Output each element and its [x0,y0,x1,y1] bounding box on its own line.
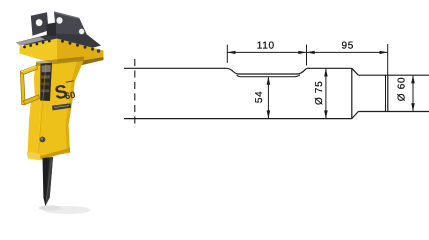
logo S60 [66,81,74,83]
svg-text:110: 110 [257,41,275,52]
flange bolts right row [61,40,64,43]
95 right [380,51,388,54]
D75 top / bottom [324,68,328,76]
web between ears [47,23,56,37]
front slot (recess) [40,63,52,101]
D75 dimension line [325,68,327,118]
horizontal dimension line [227,51,387,53]
svg-text:60: 60 [64,90,76,103]
groove lower line [237,75,300,77]
D60 dimension line [412,75,414,111]
body front face [38,60,84,158]
body right shaded sliver [66,60,85,154]
right ear plate [54,12,87,35]
bottom chamfer [352,112,359,119]
ground shadow [43,206,91,214]
body left face [28,63,47,158]
side bolt [40,137,46,143]
svg-text:54: 54 [254,91,265,104]
flange bolts left row [23,46,26,49]
54 dimension line [267,77,269,119]
svg-text:Ø 75: Ø 75 [314,81,325,105]
break (dashed) line [134,59,136,127]
part bottom line [124,118,352,120]
step face [351,68,353,118]
yellow flange plate [20,39,58,65]
handle [24,71,35,100]
54 top / bottom [267,77,271,85]
top shadow under flange [36,57,84,67]
svg-text:Ø 60: Ø 60 [396,77,407,101]
bottom edge band [40,148,70,160]
chisel [43,157,54,206]
bracket base plate (dark) [16,33,101,58]
110 right [298,51,306,54]
D60 bottom + extension [358,111,429,113]
end chamfer line [385,75,387,111]
end face [387,75,389,111]
extension lines [226,45,228,63]
svg-text:95: 95 [342,41,355,52]
95 left [307,51,315,54]
D60 top / bottom [411,75,415,83]
arrows: 110 left [227,51,235,54]
crease between faces [38,64,46,157]
left ear plate [31,12,49,36]
brand band [52,103,71,110]
part top line + groove + chamfer + D60 top/extension [124,67,227,69]
